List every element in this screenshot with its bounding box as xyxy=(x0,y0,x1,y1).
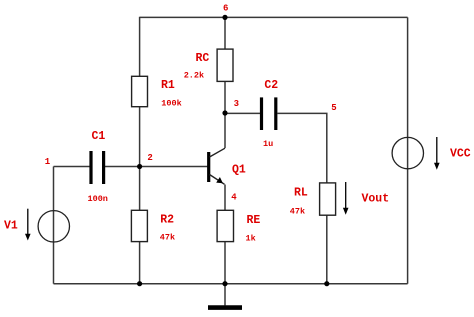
svg-text:5: 5 xyxy=(331,103,336,113)
junction dot bottom RE xyxy=(222,281,227,286)
node 2 junction dot xyxy=(137,164,142,169)
wire base from node 2 xyxy=(140,166,208,168)
transistor Q1 xyxy=(209,148,225,184)
svg-text:C1: C1 xyxy=(92,130,106,143)
svg-text:2.2k: 2.2k xyxy=(184,71,204,81)
capacitor C2 xyxy=(262,97,276,130)
svg-text:47k: 47k xyxy=(290,207,305,217)
arrow V1 xyxy=(25,209,31,241)
svg-text:Vout: Vout xyxy=(362,193,390,206)
wire RC bottom to node 3 xyxy=(224,81,226,113)
wire bottom rail xyxy=(54,283,408,285)
wire R1 bottom to node 2 xyxy=(139,107,141,167)
svg-text:3: 3 xyxy=(234,99,239,109)
arrow VCC xyxy=(434,137,440,170)
svg-text:100k: 100k xyxy=(161,99,181,109)
svg-text:C2: C2 xyxy=(264,79,278,92)
svg-text:47k: 47k xyxy=(160,232,175,242)
junction dot bottom R2 xyxy=(137,281,142,286)
resistor RL xyxy=(320,183,336,215)
source VCC xyxy=(392,137,423,168)
wire emitter vertical to RE xyxy=(224,185,226,211)
resistor R2 xyxy=(131,210,147,241)
wire node 3 to C2 xyxy=(225,112,260,114)
wire RL bottom to ground rail xyxy=(326,215,328,284)
wire RE bottom to ground rail xyxy=(224,242,226,284)
junction dot bottom RL xyxy=(324,281,329,286)
svg-text:RL: RL xyxy=(294,187,308,200)
svg-text:RE: RE xyxy=(247,214,261,227)
wire top rail xyxy=(140,16,408,18)
wire C2 to node 5 corner down to RL xyxy=(278,113,327,182)
wire node 1 to C1 xyxy=(54,166,90,168)
svg-text:4: 4 xyxy=(231,193,237,203)
wire collector vertical xyxy=(224,113,226,148)
node 3 junction dot xyxy=(222,110,227,115)
svg-text:1k: 1k xyxy=(246,234,256,244)
node 6 junction dot xyxy=(222,15,227,20)
wire ground stem xyxy=(224,284,226,306)
svg-text:R2: R2 xyxy=(160,213,174,226)
arrow Vout xyxy=(343,182,349,215)
svg-text:V1: V1 xyxy=(4,220,18,233)
capacitor C1 xyxy=(91,151,104,184)
svg-text:1u: 1u xyxy=(263,139,273,149)
svg-text:VCC: VCC xyxy=(450,148,471,161)
svg-text:6: 6 xyxy=(223,4,228,14)
svg-text:100n: 100n xyxy=(88,194,108,204)
svg-text:2: 2 xyxy=(147,153,152,163)
wire R1 top leg xyxy=(139,17,141,77)
wire R2 bottom to ground rail xyxy=(139,242,141,284)
resistor RC xyxy=(217,49,233,81)
svg-text:R1: R1 xyxy=(161,79,175,92)
wire node 6 to RC xyxy=(224,17,226,49)
source V1 xyxy=(38,211,69,242)
wire C1 to node 2 xyxy=(105,166,140,168)
resistor RE xyxy=(217,210,233,241)
resistor R1 xyxy=(132,76,148,106)
svg-text:Q1: Q1 xyxy=(232,164,246,177)
ground xyxy=(208,305,242,310)
svg-text:1: 1 xyxy=(45,157,51,167)
wire V1 branch vertical xyxy=(53,167,55,284)
wire node 2 to R2 xyxy=(139,167,141,211)
svg-text:RC: RC xyxy=(196,52,210,65)
wire VCC branch vertical xyxy=(407,17,409,283)
